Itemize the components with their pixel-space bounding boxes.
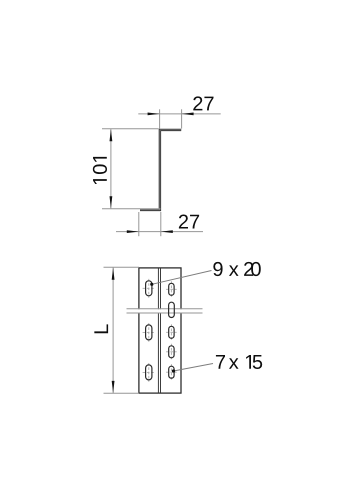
arrow up of dim L — [112, 268, 115, 280]
slot 9x20 no.3 centerlines — [143, 363, 155, 382]
Z-profile side view — [140, 130, 181, 210]
arrow up of dim 101 — [110, 129, 113, 141]
slot 7x15 no.1 — [169, 283, 174, 295]
label 7 x 15 — [216, 355, 262, 369]
rail fold edge line right — [160, 268, 162, 393]
arrow right of dim 27 top — [182, 113, 194, 116]
break line lower — [127, 312, 203, 314]
slot 9x20 no.1 centerlines — [143, 279, 155, 298]
slot 7x15 no.5 — [169, 366, 174, 378]
label 9 x 20 — [213, 262, 260, 276]
leader dot on slot 7x15 no.5 — [172, 369, 175, 372]
dimension line 27 top — [138, 113, 220, 115]
break line upper — [127, 308, 203, 310]
dim label 27 top — [193, 96, 213, 110]
rail fold edge line left — [157, 268, 159, 393]
dimension line 101 — [110, 129, 112, 208]
dim label 101 (rotated) — [93, 157, 107, 184]
extension line bottom of dim 101 — [102, 208, 161, 210]
extension line top-left of dim 27 top — [159, 109, 161, 128]
extension line bottom-left of dim 27 bottom — [138, 212, 140, 236]
extension line bottom of dim L — [104, 392, 140, 394]
slot 9x20 no.2 — [146, 325, 152, 340]
slot 7x15 no.2 (stretched across break) — [169, 302, 175, 317]
slot 7x15 no.3 centerlines — [166, 324, 177, 340]
slot 7x15 no.4 — [169, 346, 174, 358]
extension line top of dim 101 — [102, 128, 159, 130]
dim label L (rotated) — [94, 324, 108, 333]
dimension line 27 bottom — [116, 231, 203, 233]
arrow right of dim 27 bottom — [161, 230, 173, 233]
leader line for 7 x 15 — [174, 364, 214, 372]
slot 9x20 no.1 — [146, 281, 152, 296]
slot 7x15 no.4 centerlines — [166, 344, 177, 360]
slot 9x20 no.2 centerlines — [143, 323, 155, 342]
dim label 27 bottom — [179, 215, 199, 229]
slot 7x15 no.1 centerlines — [166, 281, 177, 297]
arrow left of dim 27 top — [148, 113, 160, 116]
arrow down of dim L — [112, 381, 115, 393]
arrow left of dim 27 bottom — [127, 230, 139, 233]
extension line bottom-right of dim 27 bottom — [160, 212, 162, 236]
extension line top-right of dim 27 top — [181, 109, 183, 128]
arrow down of dim 101 — [110, 196, 113, 208]
leader line for 9 x 20 — [152, 271, 212, 285]
rail front view outline — [139, 268, 181, 393]
leader dot on slot 9x20 no.1 — [150, 283, 153, 286]
slot 7x15 no.5 centerlines — [166, 364, 177, 380]
extension line top of dim L — [104, 266, 140, 268]
break gap white band — [130, 309, 200, 312]
slot 7x15 no.3 — [169, 326, 174, 338]
slot 9x20 no.3 — [146, 365, 152, 380]
dimension line L — [112, 268, 114, 394]
